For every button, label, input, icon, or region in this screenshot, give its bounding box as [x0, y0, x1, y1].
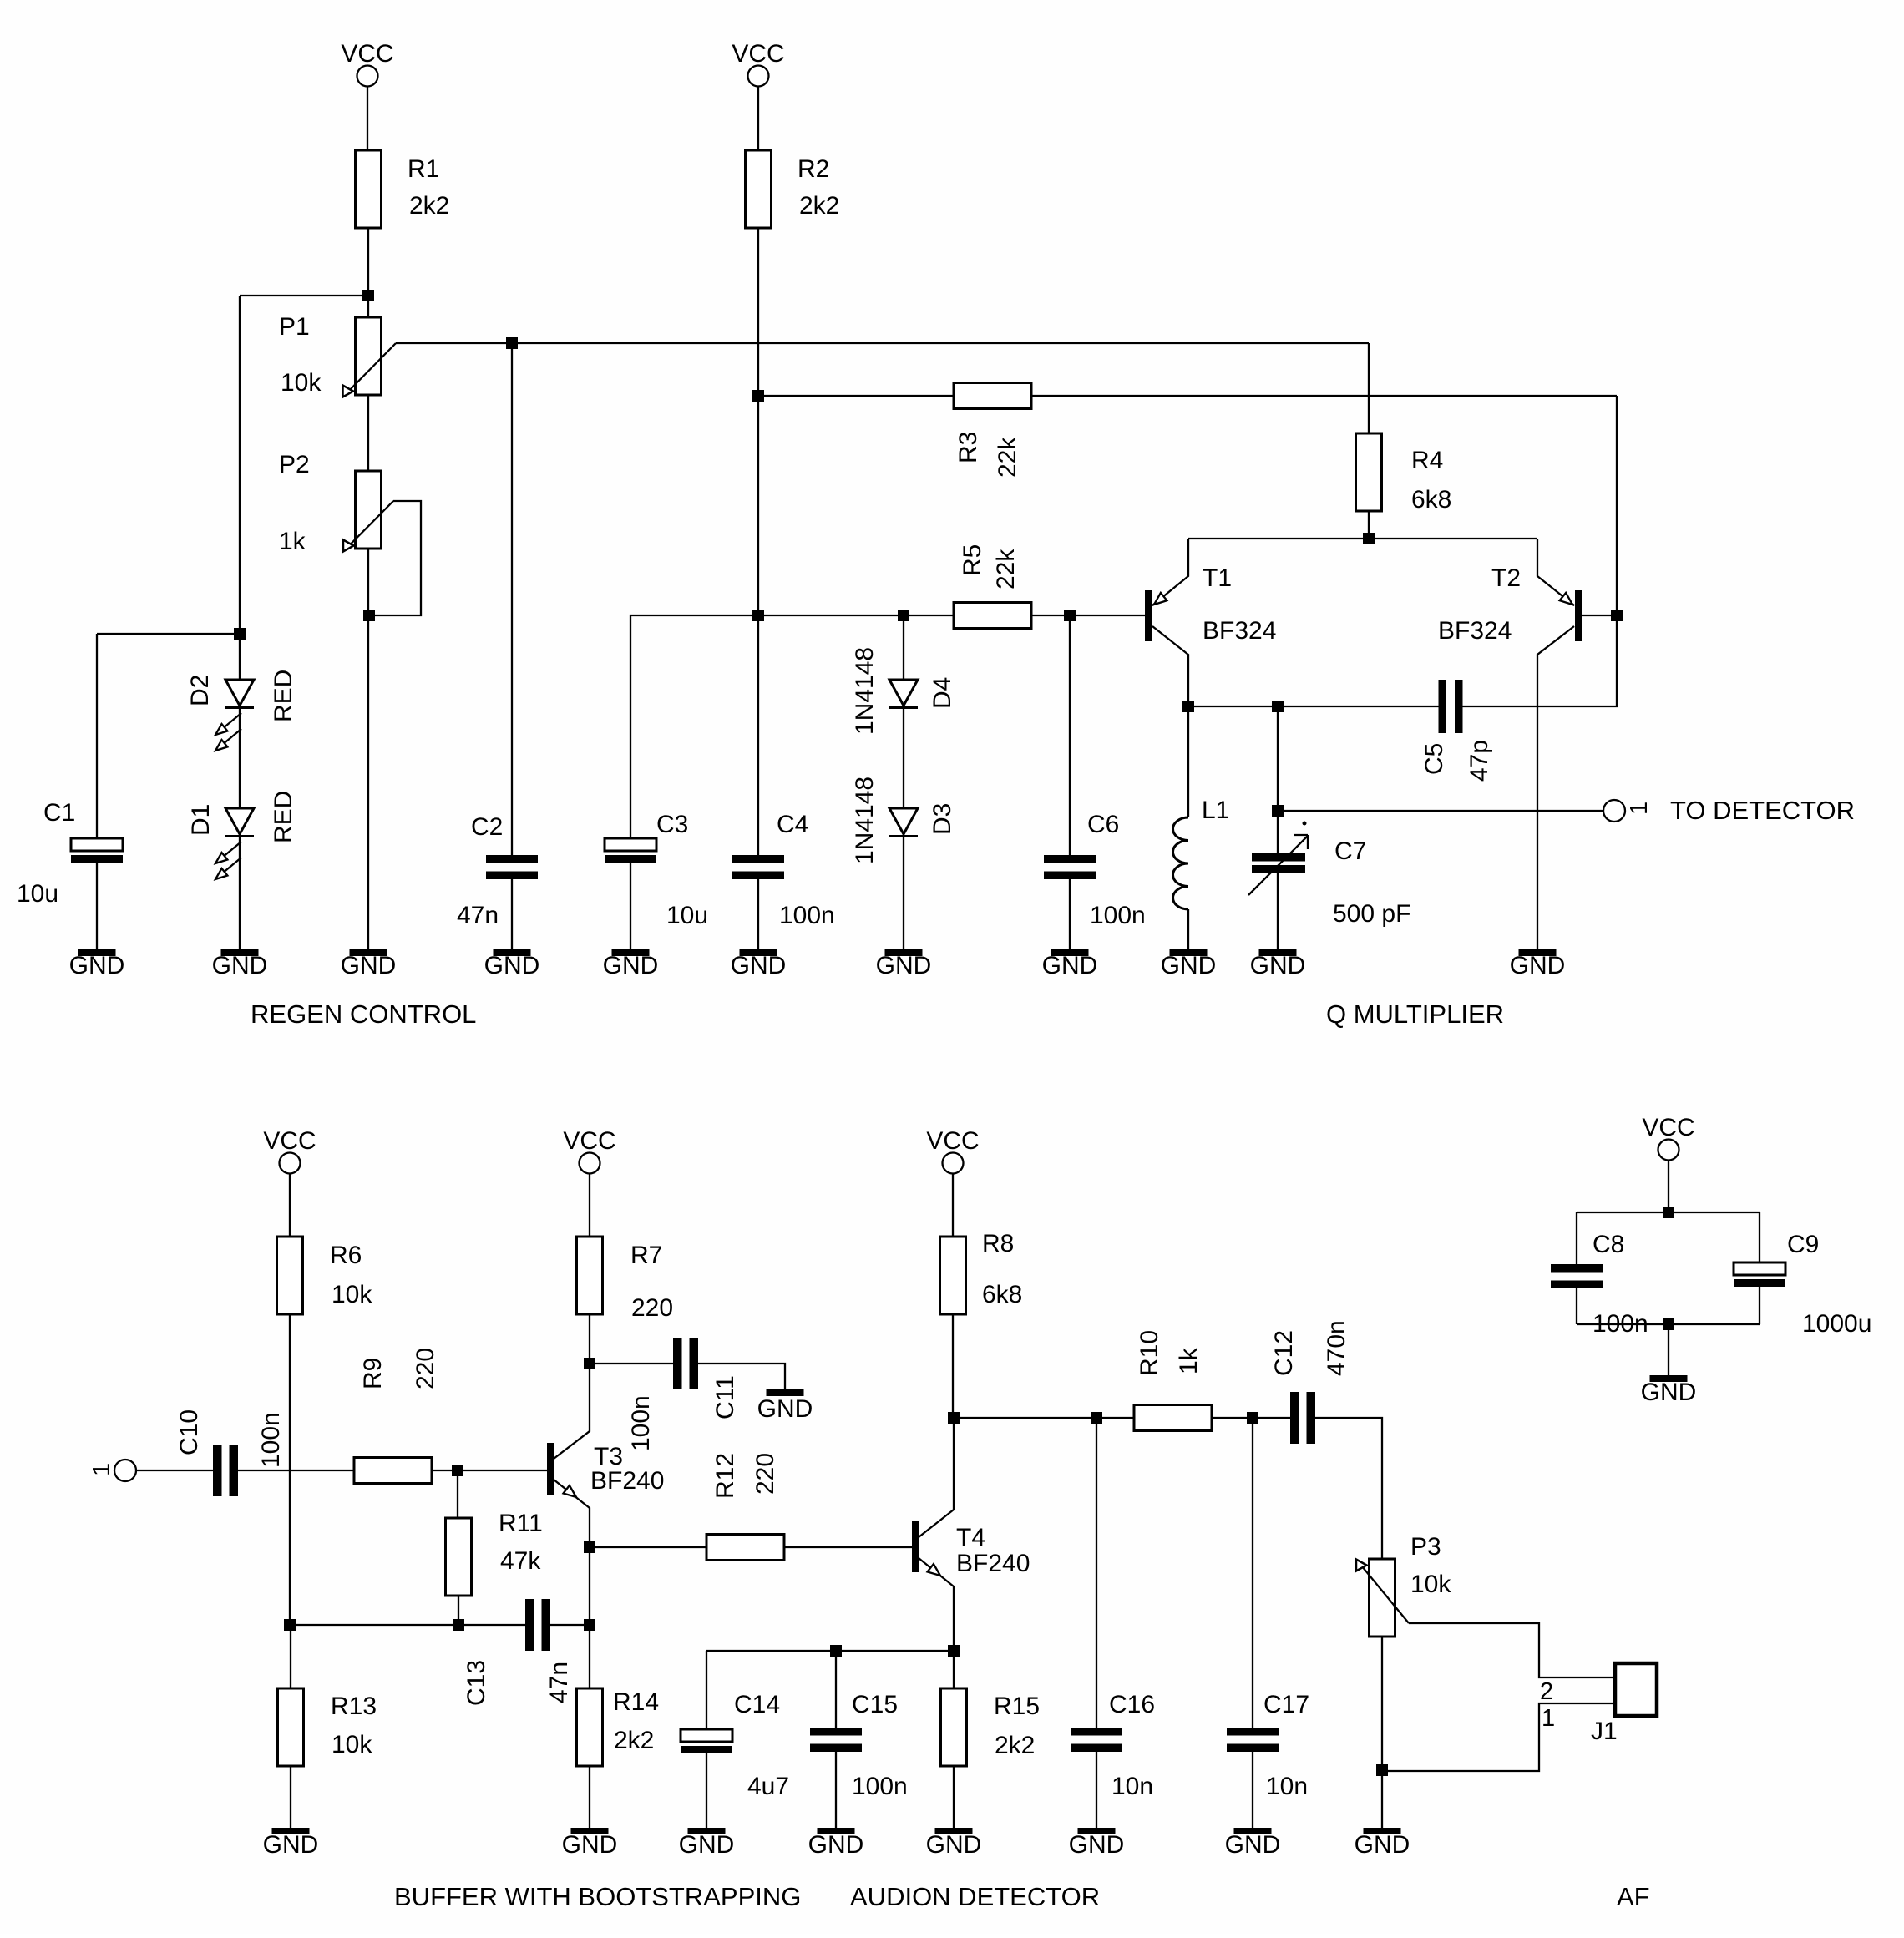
wire J1 pin 1 net — [1382, 1703, 1615, 1771]
svg-text:R8: R8 — [982, 1230, 1014, 1257]
wire C17 to GND — [1252, 1752, 1253, 1828]
svg-text:C10: C10 — [175, 1409, 203, 1455]
svg-text:AUDION DETECTOR: AUDION DETECTOR — [850, 1882, 1100, 1911]
svg-text:6k8: 6k8 — [982, 1281, 1022, 1308]
junction AF bottom rail — [1663, 1318, 1674, 1330]
svg-text:GND: GND — [926, 1831, 982, 1859]
ground GND (C1) — [78, 949, 116, 956]
wire R12 to T4 base — [784, 1546, 912, 1548]
ground GND (diodes) — [885, 949, 923, 956]
port TO DETECTOR (pin 1) — [1603, 800, 1625, 822]
svg-text:100n: 100n — [257, 1412, 285, 1468]
junction emitter rail — [1363, 533, 1375, 544]
svg-text:R1: R1 — [408, 155, 439, 183]
ground GND (AF) — [1650, 1375, 1688, 1382]
svg-text:C7: C7 — [1334, 837, 1366, 865]
svg-text:VCC: VCC — [263, 1127, 316, 1155]
svg-text:220: 220 — [631, 1294, 673, 1322]
svg-text:GND: GND — [603, 952, 659, 979]
svg-text:AF: AF — [1617, 1882, 1650, 1911]
wire R3 to T2 base drop — [1032, 395, 1617, 397]
wire R5 to T1 base — [1032, 615, 1145, 616]
svg-text:1k: 1k — [1175, 1347, 1203, 1374]
svg-text:C5: C5 — [1420, 743, 1448, 775]
diode D4 — [889, 680, 918, 708]
ground GND (P3) — [1364, 1828, 1401, 1834]
junction T3 collector / C11 — [584, 1358, 595, 1369]
wire T2 base drop — [1616, 396, 1618, 615]
capacitor C4 — [732, 855, 784, 879]
svg-text:10u: 10u — [17, 880, 58, 908]
wire down to R14 — [589, 1625, 590, 1688]
svg-text:R14: R14 — [613, 1688, 659, 1716]
capacitor C8 — [1551, 1264, 1603, 1288]
ground GND (LEDs) — [221, 949, 259, 956]
capacitor C1 (polarized) — [71, 838, 123, 863]
junction C16 branch — [1091, 1412, 1102, 1424]
wire T3 emitter to R12 — [590, 1546, 706, 1548]
wire C1 to GND — [96, 863, 98, 949]
svg-text:VCC: VCC — [563, 1127, 615, 1155]
junction T4 emitter / bootstrap right — [948, 1645, 960, 1657]
wire C14 to GND — [706, 1753, 707, 1828]
wire C15 drop — [835, 1651, 837, 1728]
power VCC net R7 column — [563, 1127, 615, 1174]
wire R2 node down to base rail — [757, 396, 759, 615]
capacitor C15 — [810, 1728, 862, 1752]
svg-text:C12: C12 — [1270, 1330, 1298, 1376]
svg-text:R15: R15 — [994, 1693, 1040, 1720]
LED D1 — [215, 808, 254, 879]
junction R11 bottom — [453, 1619, 464, 1631]
transistor T1 (PNP) — [1145, 539, 1188, 706]
svg-text:2: 2 — [1540, 1678, 1553, 1705]
junction P3 bottom / J1 pin 1 — [1376, 1764, 1388, 1776]
wire C8 to bottom rail — [1576, 1288, 1577, 1324]
svg-text:R12: R12 — [711, 1453, 739, 1499]
potentiometer P2 — [343, 471, 393, 552]
svg-text:100n: 100n — [779, 902, 835, 929]
capacitor C9 (polarized) — [1734, 1262, 1785, 1287]
capacitor C3 (polarized) — [605, 838, 656, 863]
wire bootstrap row — [290, 1624, 525, 1626]
svg-text:GND: GND — [1641, 1379, 1697, 1406]
svg-text:T1: T1 — [1203, 564, 1232, 592]
svg-text:GND: GND — [1069, 1831, 1125, 1859]
wire VCC to R7 — [589, 1174, 590, 1237]
resistor R7 — [577, 1237, 603, 1314]
wire C4 drop — [757, 615, 759, 855]
wire R1 node to P1 top — [367, 296, 369, 317]
wire R15 to GND — [953, 1766, 955, 1828]
wire C8 riser — [1576, 1212, 1577, 1264]
svg-text:C3: C3 — [656, 811, 688, 838]
wire C7 to GND — [1277, 873, 1279, 950]
svg-text:D2: D2 — [186, 675, 214, 706]
junction T3 emitter / R12 — [584, 1541, 595, 1553]
ground GND (C11) — [767, 1389, 804, 1396]
svg-text:GND: GND — [1510, 952, 1566, 979]
junction T1 collector / L1 — [1182, 701, 1194, 712]
wire T2 base net down to C5 rail — [1462, 615, 1617, 706]
svg-text:C6: C6 — [1087, 811, 1119, 838]
power VCC net R8 column — [926, 1127, 979, 1174]
ground GND (C4) — [740, 949, 777, 956]
wire left branch down to LED node — [239, 296, 241, 634]
svg-text:10u: 10u — [666, 902, 708, 929]
svg-text:2k2: 2k2 — [995, 1732, 1035, 1759]
junction emitter/bootstrap — [584, 1619, 595, 1631]
capacitor C13 — [525, 1599, 550, 1651]
junction T4 collector / R10 net — [948, 1412, 960, 1424]
svg-text:GND: GND — [69, 952, 125, 979]
junction bootstrap row left — [284, 1619, 296, 1631]
svg-text:10k: 10k — [1410, 1571, 1451, 1598]
svg-text:VCC: VCC — [732, 40, 784, 68]
svg-text:10k: 10k — [332, 1731, 372, 1758]
wire C14 riser — [706, 1651, 707, 1729]
junction detector tap — [1272, 805, 1284, 817]
wire VCC to R8 — [952, 1174, 954, 1237]
LED D2 — [215, 680, 254, 751]
svg-text:1: 1 — [1542, 1705, 1555, 1732]
svg-text:R5: R5 — [959, 544, 986, 576]
wire C17 drop — [1252, 1418, 1253, 1728]
capacitor C14 (polarized) — [681, 1729, 732, 1753]
capacitor C5 — [1439, 680, 1463, 733]
svg-text:BF324: BF324 — [1438, 617, 1512, 645]
svg-text:GND: GND — [212, 952, 268, 979]
wire R6 down to bootstrap node — [289, 1314, 291, 1625]
ground GND (R15) — [935, 1828, 973, 1834]
svg-text:C13: C13 — [463, 1660, 490, 1706]
svg-text:C14: C14 — [734, 1691, 780, 1718]
svg-text:GND: GND — [1250, 952, 1306, 979]
wire C9 riser — [1759, 1212, 1760, 1262]
capacitor C10 — [213, 1445, 238, 1496]
svg-text:4u7: 4u7 — [747, 1773, 789, 1800]
resistor R9 — [354, 1458, 432, 1484]
wire R11 drop — [457, 1470, 458, 1518]
wire P3 bottom to GND node — [1381, 1637, 1383, 1828]
wire L1 to GND — [1187, 909, 1189, 949]
svg-text:C15: C15 — [852, 1691, 898, 1718]
svg-text:BUFFER WITH BOOTSTRAPPING: BUFFER WITH BOOTSTRAPPING — [394, 1882, 801, 1911]
svg-text:GND: GND — [263, 1831, 319, 1859]
resistor R14 — [577, 1688, 603, 1766]
transistor T4 (NPN) — [912, 1418, 954, 1651]
wire C3 riser and base rail left end — [630, 615, 758, 838]
capacitor C17 — [1227, 1728, 1279, 1752]
wire D3 to GND — [903, 837, 904, 949]
svg-text:10n: 10n — [1266, 1773, 1308, 1800]
svg-text:P1: P1 — [279, 313, 310, 341]
wire R6 node to R13 — [290, 1625, 291, 1688]
wire P1 wiper to Q multiplier (long net) — [396, 342, 1369, 344]
svg-text:22k: 22k — [994, 437, 1021, 478]
power VCC net R6 column — [263, 1127, 316, 1174]
svg-text:VCC: VCC — [1642, 1114, 1694, 1141]
wire node to left branch — [240, 295, 362, 296]
wire C6 drop — [1069, 615, 1071, 855]
junction R9/R11 — [452, 1465, 463, 1476]
svg-text:T4: T4 — [956, 1524, 985, 1551]
junction wiper/C2 — [506, 337, 518, 349]
wire C4 to GND — [757, 879, 759, 949]
wire R11 to bootstrap row — [458, 1596, 459, 1625]
wire C1 drop — [96, 634, 98, 838]
wire base rail to diode clamp — [758, 615, 904, 616]
wire input to C10 — [136, 1470, 213, 1471]
svg-text:R11: R11 — [499, 1510, 543, 1537]
resistor R4 — [1356, 433, 1382, 511]
svg-text:1N4148: 1N4148 — [851, 647, 879, 735]
power VCC net AF column — [1642, 1114, 1694, 1161]
svg-text:C8: C8 — [1593, 1231, 1624, 1258]
svg-text:10k: 10k — [332, 1281, 372, 1308]
wire wiper net down to R4 — [1368, 343, 1370, 433]
junction LED branch — [234, 628, 246, 640]
wire C9 to bottom rail — [1759, 1287, 1760, 1324]
wire C2 to GND — [511, 879, 513, 949]
wire P2 bottom to GND — [367, 549, 369, 949]
junction base rail / C4 — [752, 610, 764, 621]
svg-text:GND: GND — [757, 1395, 813, 1423]
wire D1 to GND — [239, 837, 241, 949]
wire C5 rail left — [1188, 706, 1439, 707]
wire node to C11 — [590, 1363, 673, 1364]
svg-text:2k2: 2k2 — [614, 1727, 654, 1754]
wire C15 to GND — [835, 1752, 837, 1828]
ground GND (R14) — [571, 1828, 609, 1834]
wire R9 to T3 base — [432, 1470, 547, 1471]
svg-text:RED: RED — [270, 670, 297, 722]
junction AF top rail — [1663, 1207, 1674, 1218]
connector J1 — [1615, 1663, 1657, 1716]
svg-text:D4: D4 — [929, 677, 956, 709]
wire P3 wiper to J1 pin 2 — [1409, 1623, 1615, 1677]
svg-text:47n: 47n — [457, 902, 499, 929]
input port (pin 1 from detector) — [114, 1460, 136, 1481]
power VCC net R2 column — [732, 40, 784, 87]
wire AF bottom rail — [1577, 1323, 1760, 1325]
svg-text:TO DETECTOR: TO DETECTOR — [1670, 796, 1855, 825]
svg-text:BF240: BF240 — [590, 1467, 664, 1495]
resistor R8 — [940, 1237, 966, 1314]
svg-text:VCC: VCC — [341, 40, 393, 68]
ground GND (R13) — [272, 1828, 310, 1834]
svg-text:R9: R9 — [359, 1358, 387, 1389]
svg-text:C11: C11 — [711, 1375, 739, 1419]
junction T1 base / C6 — [1064, 610, 1076, 621]
resistor R15 — [941, 1688, 967, 1766]
resistor R3 — [954, 383, 1031, 409]
potentiometer P1 — [343, 317, 397, 397]
capacitor C2 — [486, 855, 538, 879]
svg-text:T2: T2 — [1491, 564, 1521, 592]
svg-text:GND: GND — [808, 1831, 864, 1859]
wire P1 bottom to P2 top — [367, 395, 369, 471]
svg-text:R3: R3 — [955, 432, 982, 463]
ground GND (T2) — [1519, 949, 1557, 956]
wire C16 drop — [1096, 1418, 1097, 1728]
wire R4 to emitter rail — [1368, 511, 1370, 539]
svg-text:GND: GND — [731, 952, 787, 979]
inductor L1 — [1173, 817, 1188, 909]
svg-text:Q MULTIPLIER: Q MULTIPLIER — [1326, 999, 1504, 1029]
resistor R6 — [277, 1237, 303, 1314]
svg-text:100n: 100n — [852, 1773, 908, 1800]
svg-text:C1: C1 — [43, 799, 75, 827]
svg-text:GND: GND — [1042, 952, 1098, 979]
resistor R1 — [356, 150, 382, 228]
svg-text:GND: GND — [679, 1831, 735, 1859]
svg-text:D1: D1 — [187, 804, 215, 836]
ground GND (C6) — [1051, 949, 1089, 956]
svg-text:2k2: 2k2 — [409, 192, 449, 220]
wire C13 to emitter column — [550, 1624, 590, 1626]
wire emitter rail — [1188, 538, 1537, 539]
svg-text:22k: 22k — [992, 549, 1020, 589]
ground GND (C7) — [1259, 949, 1297, 956]
wire VCC to AF rail — [1668, 1161, 1669, 1213]
wire C12 to P3 top — [1315, 1418, 1382, 1559]
capacitor C11 — [673, 1338, 698, 1389]
ground GND (C14) — [688, 1828, 726, 1834]
svg-text:100n: 100n — [627, 1395, 655, 1451]
power VCC net R1 column — [341, 40, 393, 87]
resistor R5 — [954, 603, 1031, 629]
svg-text:C9: C9 — [1787, 1231, 1819, 1258]
svg-text:1N4148: 1N4148 — [851, 777, 879, 864]
wire collector node to C16/R10 — [954, 1417, 1134, 1419]
wire R13 to GND — [290, 1766, 291, 1828]
wire VCC to R2 — [757, 87, 759, 151]
wire VCC to R6 — [289, 1174, 291, 1237]
resistor R12 — [706, 1535, 784, 1561]
ground GND (L1) — [1170, 949, 1208, 956]
junction C17 branch — [1247, 1412, 1258, 1424]
wire D2 to D1 — [239, 709, 241, 808]
wire D4 to D3 — [903, 709, 904, 808]
wire C6 to GND — [1069, 879, 1071, 949]
wire R2 to R3 node — [757, 228, 759, 396]
svg-text:C17: C17 — [1263, 1691, 1309, 1718]
svg-text:470n: 470n — [1323, 1320, 1350, 1376]
wire C2 drop — [511, 343, 513, 855]
svg-text:BF324: BF324 — [1203, 617, 1276, 645]
wire C16 to GND — [1096, 1752, 1097, 1828]
wire C7 drop — [1277, 706, 1279, 853]
variable capacitor C7 — [1248, 822, 1308, 896]
svg-text:1000u: 1000u — [1802, 1310, 1871, 1338]
svg-text:1: 1 — [89, 1463, 115, 1476]
svg-text:47n: 47n — [545, 1662, 573, 1703]
wire R10 to C12 — [1212, 1417, 1290, 1419]
svg-text:6k8: 6k8 — [1411, 486, 1451, 514]
wire R8 to collector node — [952, 1314, 954, 1418]
svg-text:L1: L1 — [1202, 797, 1229, 824]
transistor T3 (NPN) — [547, 1364, 590, 1547]
potentiometer P3 — [1356, 1559, 1409, 1637]
capacitor C12 — [1290, 1392, 1315, 1444]
resistor R11 — [446, 1518, 472, 1596]
wire C10 to R9 — [238, 1470, 354, 1471]
svg-text:R2: R2 — [798, 155, 829, 183]
wire bootstrap right row — [706, 1650, 954, 1652]
svg-text:C4: C4 — [777, 811, 808, 838]
wire P2 wiper loop to bottom node — [375, 501, 421, 615]
wire C11 to local GND — [698, 1364, 785, 1389]
wire AF top rail — [1577, 1212, 1760, 1213]
svg-text:220: 220 — [412, 1348, 439, 1389]
junction diode clamp — [898, 610, 909, 621]
wire clamp to D4 — [903, 615, 904, 680]
wire L1 drop — [1187, 706, 1189, 817]
svg-text:100n: 100n — [1090, 902, 1146, 929]
svg-text:R13: R13 — [331, 1693, 377, 1720]
junction R1/P1/feedback node — [362, 290, 374, 301]
svg-text:C16: C16 — [1109, 1691, 1155, 1718]
svg-text:P2: P2 — [279, 451, 310, 478]
capacitor C16 — [1071, 1728, 1122, 1752]
svg-text:R4: R4 — [1411, 447, 1443, 474]
svg-text:R10: R10 — [1136, 1330, 1163, 1376]
svg-text:10k: 10k — [281, 369, 322, 397]
ground GND (P2) — [350, 949, 387, 956]
svg-text:R6: R6 — [330, 1242, 362, 1269]
svg-text:GND: GND — [1161, 952, 1217, 979]
transistor T2 (PNP) — [1537, 539, 1582, 949]
svg-text:500 pF: 500 pF — [1333, 900, 1410, 928]
wire clamp node to R5 — [904, 615, 954, 616]
svg-text:10n: 10n — [1112, 1773, 1153, 1800]
wire node to R3 — [758, 395, 954, 397]
svg-text:1: 1 — [1626, 802, 1653, 815]
wire AF rail to GND — [1668, 1324, 1669, 1375]
wire T2 base stub — [1582, 615, 1617, 616]
svg-text:P3: P3 — [1410, 1533, 1441, 1561]
junction T2 base — [1611, 610, 1623, 621]
wire R7 to T3 collector node — [589, 1314, 590, 1364]
wire LED node to C1 — [97, 633, 240, 635]
ground GND (C2) — [494, 949, 531, 956]
svg-text:2k2: 2k2 — [799, 192, 839, 220]
junction R2/R3 — [752, 390, 764, 402]
svg-text:47k: 47k — [500, 1547, 541, 1575]
wire C3 to GND — [630, 863, 631, 949]
wire VCC to R1 — [367, 87, 368, 151]
svg-text:GND: GND — [876, 952, 932, 979]
svg-text:GND: GND — [1355, 1831, 1410, 1859]
ground GND (C16) — [1078, 1828, 1116, 1834]
wire T4 emitter to R15 — [953, 1651, 955, 1688]
wire R1 to P1 node — [367, 228, 369, 296]
svg-text:BF240: BF240 — [956, 1550, 1030, 1577]
svg-text:GND: GND — [341, 952, 397, 979]
svg-text:1k: 1k — [279, 528, 306, 555]
capacitor C6 — [1044, 855, 1096, 879]
wire node to LED D2 — [239, 634, 241, 680]
junction C15 branch — [830, 1645, 842, 1657]
junction C7 branch — [1272, 701, 1284, 712]
ground GND (C15) — [818, 1828, 855, 1834]
svg-text:C2: C2 — [471, 813, 503, 841]
resistor R10 — [1134, 1405, 1212, 1431]
svg-text:VCC: VCC — [926, 1127, 979, 1155]
svg-text:GND: GND — [562, 1831, 618, 1859]
svg-text:R7: R7 — [630, 1242, 662, 1269]
